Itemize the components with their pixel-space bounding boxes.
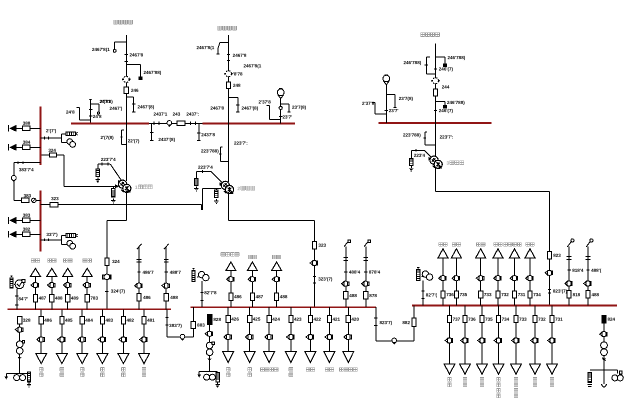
bus W2 (110kV bus section B) [203, 122, 296, 124]
svg-text:2467'8: 2467'8 [233, 53, 247, 58]
label 高扎一线 731 [504, 243, 522, 247]
svg-text:323: 323 [51, 196, 59, 201]
svg-text:223'4: 223'4 [414, 153, 426, 158]
bus W4 upper (west vertical bus) [39, 106, 41, 165]
label 扎钢二线 up [221, 253, 239, 257]
svg-text:383: 383 [23, 213, 31, 218]
svg-text:734: 734 [533, 292, 541, 297]
knife 2467(B f2 [229, 98, 240, 113]
label 484 spare [80, 368, 84, 377]
PT TV-A stub [89, 101, 92, 123]
breaker 783 up [85, 294, 89, 301]
label 2437B [186, 112, 199, 117]
PT TV-A left knife [76, 107, 90, 119]
label 高扎二线 424 [260, 368, 278, 372]
svg-text:736: 736 [446, 292, 454, 297]
tap arrow into T3 [424, 150, 432, 160]
breaker 489 up [66, 294, 70, 301]
svg-text:732: 732 [538, 317, 546, 322]
label 2号主变 [237, 186, 254, 192]
label 2467 f3b [439, 108, 454, 113]
label 2234 f3 [414, 153, 426, 158]
label 2467B f2 [233, 53, 247, 58]
svg-text:382: 382 [23, 227, 31, 232]
breaker 883 tie12 [191, 321, 195, 328]
label 483 spare [101, 368, 105, 377]
label 备用 423 [289, 368, 293, 377]
label 2437A [154, 112, 168, 117]
label 2467B f1 [129, 52, 143, 57]
svg-text:2437'(8): 2437'(8) [158, 137, 175, 142]
label 324 path [48, 148, 56, 153]
label 备用 425 [248, 368, 252, 377]
svg-text:243: 243 [173, 112, 181, 117]
label 24B top [99, 99, 111, 104]
label 备用 732 [533, 378, 537, 387]
label 237 stub C [389, 108, 399, 113]
bus W1 (110kV bus section A) [71, 122, 149, 124]
feeder 737 down busIII [444, 306, 461, 375]
transformer T2 (2号主变) [221, 181, 233, 194]
label 481 spare [142, 368, 146, 377]
PT TV-C left knife [372, 103, 386, 114]
label 487 up [39, 296, 47, 301]
svg-text:3: 3 [446, 161, 449, 167]
station PT bus I meter [15, 280, 25, 289]
label 783 up [90, 296, 98, 301]
breaker 487 up [33, 294, 37, 301]
svg-text:486: 486 [44, 318, 52, 323]
svg-text:2467'(8): 2467'(8) [241, 106, 258, 111]
stub 2437 grounding B [197, 123, 200, 140]
voltage transformer tap 3377 lower [40, 232, 77, 249]
label 24B left [66, 110, 75, 115]
svg-text:388: 388 [23, 121, 31, 126]
svg-text:324: 324 [48, 148, 56, 153]
disconnector 823 LV [545, 270, 552, 275]
feeder 731 down busIII [547, 306, 564, 375]
svg-text:421: 421 [332, 317, 340, 322]
svg-text:488'4: 488'4 [349, 270, 361, 275]
breaker 487 busII up [250, 293, 254, 300]
disconnector in loop [11, 176, 16, 182]
label 736 busIII up [446, 292, 454, 297]
tick f3 a [434, 68, 437, 70]
wire 324 path [40, 155, 112, 186]
label 735 busIII up [460, 292, 468, 297]
breaker 389 loop [22, 198, 30, 202]
label 备用 422 [306, 368, 314, 372]
label 38374 [19, 167, 34, 172]
feeder 483 down [97, 309, 114, 363]
svg-text:2467'8: 2467'8 [129, 52, 143, 57]
svg-text:422: 422 [313, 317, 321, 322]
svg-text:732: 732 [501, 292, 509, 297]
svg-text:818'4: 818'4 [572, 268, 584, 273]
svg-text:486: 486 [143, 295, 151, 300]
PT TV-A right knife [91, 104, 100, 114]
svg-text:733: 733 [519, 317, 527, 322]
station transformer cluster II [197, 331, 219, 387]
tick f3 b [434, 110, 437, 112]
arrester branch f3 [411, 149, 424, 159]
label 2467 f1 [110, 106, 123, 111]
svg-text:488: 488 [591, 292, 599, 297]
stub 2437 grounding A [150, 123, 153, 140]
disconnector 324 LV [103, 274, 112, 280]
svg-text:223'788): 223'788) [403, 132, 421, 137]
label 2B7B f2 [233, 71, 243, 76]
svg-text:487: 487 [256, 294, 264, 299]
svg-text:420: 420 [351, 317, 359, 322]
svg-text:735: 735 [460, 292, 468, 297]
earth knife f3 top [436, 57, 447, 67]
label 2237BB f2 [201, 148, 219, 153]
feeder 481 down [139, 309, 156, 363]
ticks 823 LV [548, 289, 551, 293]
svg-text:828: 828 [213, 317, 221, 322]
up feeder 735 busIII [451, 249, 461, 306]
label 备用 735 [452, 243, 460, 247]
label 486 spare [39, 368, 43, 377]
wire f2 to transformer [228, 123, 230, 182]
earth knife 2467BB f1 [126, 65, 142, 80]
svg-text:737: 737 [453, 317, 461, 322]
feeder 423 down busII [286, 307, 303, 362]
svg-text:2467'8(1: 2467'8(1 [243, 63, 261, 68]
label 22374 f1 [101, 157, 116, 162]
label 2467BG f1 [92, 47, 110, 52]
svg-text:2467'8: 2467'8 [210, 106, 224, 111]
up feeder 734 busIII [525, 249, 535, 306]
PT TV-B right knife [281, 104, 291, 112]
svg-text:731: 731 [518, 292, 526, 297]
label incoming line 2 [218, 26, 237, 30]
label 2237B f1 [100, 99, 113, 104]
breaker 486 busII up [229, 293, 233, 300]
svg-text:824: 824 [607, 317, 615, 322]
svg-text:2: 2 [237, 186, 240, 192]
feeder 486 down [36, 309, 53, 363]
svg-text:487: 487 [39, 296, 47, 301]
label 237(B C [399, 96, 414, 101]
label 2467B left f2 [210, 106, 224, 111]
wire feeder-3 drop [435, 44, 437, 123]
svg-text:223'788): 223'788) [201, 148, 219, 153]
knife left f3 [425, 57, 436, 74]
label 731 busIII up [518, 292, 526, 297]
label 246BB left f3 [403, 60, 421, 65]
PT TV-C stub [385, 85, 388, 123]
PT TV-C right knife [386, 95, 396, 108]
label 323 LV [318, 243, 326, 248]
label 823 LV [553, 253, 561, 258]
breaker 324 path [50, 153, 57, 157]
label 备用 734 [526, 243, 534, 247]
spare up feeder 488 [47, 268, 57, 309]
svg-text:223'7'4: 223'7'4 [198, 165, 213, 170]
open riser 8784 busII [362, 240, 381, 307]
knife below-bus f2 [219, 147, 228, 162]
label 2467BB f3t [447, 55, 465, 60]
svg-text:24'8: 24'8 [66, 110, 75, 115]
arrester F2 of T1 [111, 186, 115, 203]
label 485 spare [60, 368, 64, 377]
up feeder 487 busII [247, 262, 257, 307]
feeder 424 down busII [264, 307, 281, 362]
svg-text:248: 248 [233, 83, 241, 88]
station transformer cluster III [587, 332, 623, 388]
label incoming line 1 [114, 20, 133, 24]
disconnector 2467BG f1 [113, 42, 126, 52]
knife below-bus f1 [120, 130, 126, 145]
label 389 loop [24, 193, 32, 198]
breaker 324 LV [105, 258, 109, 265]
label incoming line 3 [421, 33, 440, 37]
station feeder 824 busIII [602, 316, 616, 370]
svg-text:2'(7'): 2'(7') [46, 128, 57, 133]
spare up feeder 783 label [83, 259, 91, 263]
wire feeder-2 drop [228, 35, 230, 123]
svg-text:246'(7): 246'(7) [439, 66, 454, 71]
breaker 328 station I [18, 316, 22, 323]
breaker 733 busIII up [479, 291, 483, 298]
open riser 4884 busII [342, 240, 361, 307]
svg-text:2467'88): 2467'88) [143, 70, 161, 75]
svg-text:383: 383 [24, 193, 32, 198]
label 2467BG f2 [196, 45, 214, 50]
breaker 488 up [50, 294, 54, 301]
label 1号主变 [135, 185, 152, 191]
breaker 731 busIII up [512, 291, 516, 298]
feeder 420 down busII [343, 307, 360, 362]
label 482 spare [122, 368, 126, 377]
label 248 [233, 83, 241, 88]
station PT bus I arrester [10, 276, 13, 288]
feeder 422 down busII [305, 307, 322, 362]
label 487 busII up [256, 294, 264, 299]
label 488 up [55, 296, 63, 301]
wire 323 left path [202, 189, 221, 211]
station transformer cluster I [5, 324, 32, 387]
feeder arrow 388 [9, 121, 41, 132]
svg-text:425: 425 [253, 317, 261, 322]
svg-text:482: 482 [126, 318, 134, 323]
label 489 up [71, 296, 79, 301]
feeder 484 down [77, 309, 94, 363]
label 734 busIII up [533, 292, 541, 297]
svg-text:223'7'4: 223'7'4 [101, 157, 116, 162]
svg-text:2467'): 2467') [110, 106, 123, 111]
svg-text:736: 736 [468, 317, 476, 322]
svg-text:735: 735 [485, 317, 493, 322]
svg-text:2437':: 2437': [186, 112, 199, 117]
svg-text:485: 485 [65, 318, 73, 323]
up feeder 733 busIII [476, 249, 486, 306]
svg-text:481: 481 [147, 318, 155, 323]
wire 323 path [40, 205, 201, 211]
svg-text:82'7'(: 82'7'( [426, 293, 438, 298]
wire T3 LV output [436, 167, 550, 306]
spare up feeder 783 [82, 268, 92, 309]
label 883 tie12 [197, 323, 205, 328]
feeder 421 down busII [324, 307, 341, 362]
svg-text:2'37'8: 2'37'8 [362, 101, 375, 106]
label 2467BB f1 [143, 70, 161, 75]
bus II PT cluster meter [198, 271, 209, 280]
tick 324 LV [105, 290, 108, 292]
label 备用 487 [248, 255, 256, 259]
label 22374 f2 [198, 165, 213, 170]
label 3号主变 [446, 161, 463, 167]
arrester-disc f3 [431, 78, 440, 84]
svg-text:246'788): 246'788) [403, 60, 421, 65]
feeder 482 down [118, 309, 135, 363]
ticks f2 [227, 55, 230, 61]
svg-text:23'7': 23'7' [389, 108, 399, 113]
knife 2467(B f1 [126, 97, 135, 112]
svg-text:489: 489 [71, 296, 79, 301]
svg-text:246'(7): 246'(7) [439, 108, 454, 113]
svg-text:24'8: 24'8 [93, 114, 102, 119]
label 2247 [128, 138, 140, 143]
svg-text:324: 324 [112, 259, 120, 264]
knife below-bus f3 [424, 132, 436, 145]
svg-text:1: 1 [135, 185, 138, 191]
feeder 735 down busIII [477, 306, 494, 375]
svg-text:823'(7): 823'(7) [553, 289, 568, 294]
label 8277 busII [204, 290, 217, 295]
transformer T1 (1号主变) [119, 180, 131, 193]
svg-text:823: 823 [553, 253, 561, 258]
tap arrow into T1 [110, 164, 122, 184]
svg-text:488'(: 488'( [591, 268, 602, 273]
disconnector tie12 [180, 334, 185, 340]
label 备用 737 [448, 378, 452, 387]
svg-text:486: 486 [234, 294, 242, 299]
svg-text:23'7(8): 23'7(8) [399, 96, 414, 101]
feeder 426 down busII [223, 307, 240, 362]
bus W5 (10kV bus I) [7, 308, 171, 310]
label 备用 421 [325, 368, 333, 372]
spare up feeder 487 label [31, 259, 39, 263]
label 备用 488 [272, 255, 280, 259]
feeder 736 down busIII [460, 306, 477, 375]
label 328 [23, 318, 31, 323]
feeder arrow 382 [9, 227, 41, 238]
arrester F1 of T1 [96, 169, 100, 182]
label 2467BG2 f2 [243, 63, 261, 68]
label 备用 426 [226, 368, 230, 377]
up feeder 486 busII [226, 262, 236, 307]
label 备用 733 [477, 243, 485, 247]
label 323 path [51, 196, 59, 201]
label 8237 LV [553, 289, 568, 294]
PT TV-A head [89, 99, 92, 101]
label 英钢二线 420 [340, 368, 358, 372]
feeder arrow 384 [9, 140, 41, 151]
svg-text:23'7(8): 23'7(8) [292, 105, 307, 110]
label 237B C [362, 101, 375, 106]
arrester-disc f1 [122, 76, 131, 82]
svg-text:2'(7'8): 2'(7'8) [100, 99, 113, 104]
breaker 323 LV [312, 242, 316, 249]
svg-text:734: 734 [502, 317, 510, 322]
tie wire bus I-II [165, 307, 193, 337]
svg-text:328: 328 [23, 318, 31, 323]
arrester F1 of T2 [194, 179, 198, 191]
label 3237 LV [318, 277, 333, 282]
station feeder 828 busII [207, 315, 221, 372]
label 2467BB f3m [447, 100, 465, 105]
wire f1 to transformer [125, 123, 127, 181]
label 488 busII up [280, 294, 288, 299]
svg-text:323'(7): 323'(7) [318, 277, 333, 282]
arrester F2 of T2 [214, 189, 218, 204]
wire bus tie A-B [149, 122, 203, 125]
svg-text:383'7'4: 383'7'4 [19, 167, 34, 172]
svg-text:823'7): 823'7) [379, 320, 392, 325]
label 237(B B [292, 105, 307, 110]
label 732 busIII up [501, 292, 509, 297]
spare up feeder 489 label [64, 259, 72, 263]
label 2437(B [158, 137, 175, 142]
feeder arrow 383 [9, 213, 41, 224]
feeder 485 down [57, 309, 74, 363]
label 备用 736 [439, 243, 447, 247]
label 733 busIII up [484, 292, 492, 297]
breaker 734 busIII up [528, 291, 532, 298]
label 2237 f2 [234, 141, 248, 146]
svg-text:484: 484 [85, 318, 93, 323]
label 高钢一线 734 [497, 378, 501, 398]
station PT bus I drop [14, 284, 18, 309]
svg-text:383'7): 383'7) [169, 323, 182, 328]
svg-text:23'7': 23'7' [282, 114, 292, 119]
label 2467(B f1 [137, 104, 154, 109]
svg-text:878'4: 878'4 [369, 270, 381, 275]
up feeder 731 busIII [510, 249, 520, 306]
feeder 732 down busIII [530, 306, 547, 375]
disconnector 243 on tie [167, 121, 172, 127]
label 3837 tie12 [169, 323, 182, 328]
breaker 735 busIII up [454, 291, 458, 298]
label 2467(B right f2 [241, 106, 258, 111]
up feeder 736 busIII [438, 249, 448, 306]
bus W6 (10kV bus II) [190, 306, 375, 308]
voltage transformer tap 2477 upper [40, 128, 77, 147]
PT TV-C head [383, 75, 390, 85]
bus II PT cluster arrester [192, 268, 195, 281]
up feeder 488 busII [272, 262, 282, 307]
bus W7 (10kV bus III) [412, 305, 617, 307]
spare up feeder 488 label [48, 259, 56, 263]
svg-text:324'(7): 324'(7) [111, 289, 126, 294]
ticks 323 LV [313, 277, 316, 283]
PT TV-B head [277, 89, 284, 99]
svg-text:223'7':: 223'7': [440, 134, 454, 139]
label 847 busI [18, 296, 28, 301]
label 24B mid [93, 114, 102, 119]
svg-text:882: 882 [402, 320, 410, 325]
arrester-disc f2 [224, 71, 233, 77]
svg-text:488: 488 [170, 295, 178, 300]
wire feeder-1 drop [125, 35, 127, 123]
label 227(B [100, 135, 114, 140]
svg-text:33'7'): 33'7') [46, 232, 58, 237]
label 237B B [258, 99, 271, 104]
feeder 733 down busIII [511, 306, 528, 375]
